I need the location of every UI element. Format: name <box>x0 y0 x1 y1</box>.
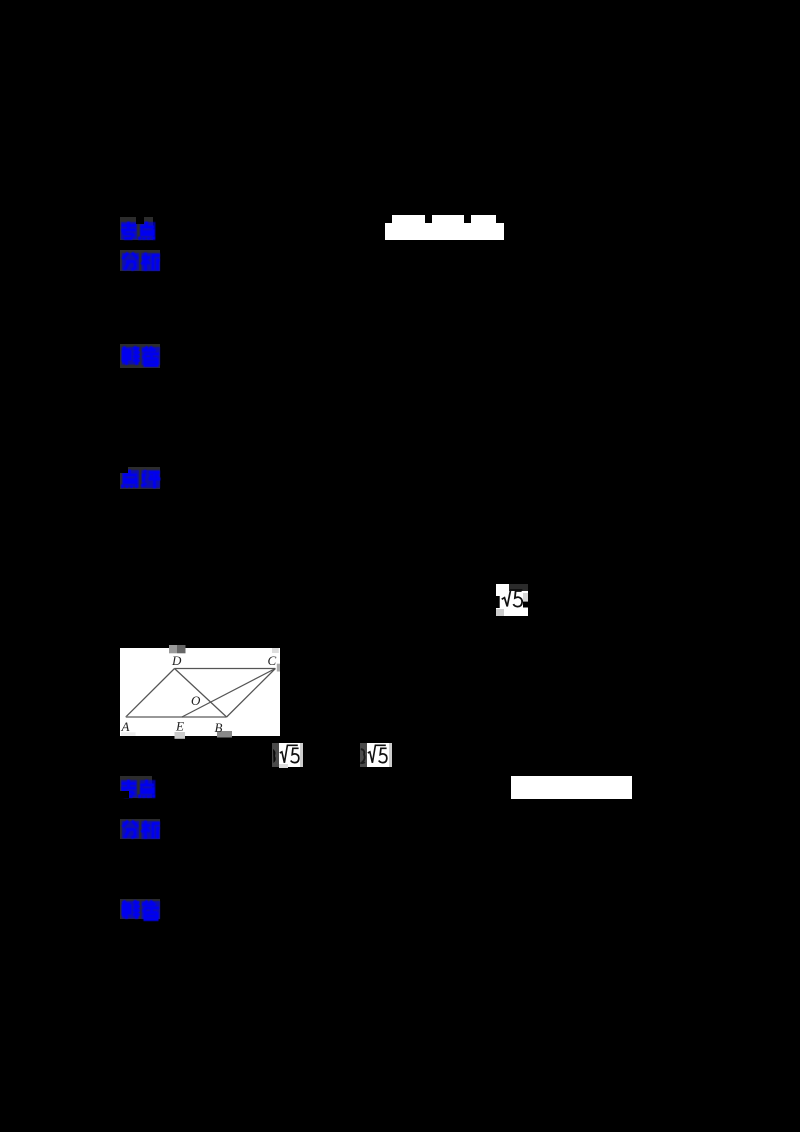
vertex labels <box>121 653 277 735</box>
equation image sqrt5 inline (answer line) <box>496 584 528 616</box>
label 解答 #1 <box>120 344 160 368</box>
parallelogram sides <box>126 669 276 718</box>
geometry figure image: parallelogram ABCD <box>120 648 280 736</box>
equation image sqrt5 #2 <box>272 743 279 766</box>
svg-text:C: C <box>268 653 277 668</box>
label 点评 #1 <box>120 467 160 489</box>
svg-text:E: E <box>175 719 184 734</box>
svg-text:O: O <box>191 693 201 708</box>
scan smudges <box>169 645 177 653</box>
label 分析 #1 <box>120 250 160 271</box>
label 考点 #2 <box>120 776 152 798</box>
title highlight: three bumps <box>392 215 425 223</box>
label 考点 #1 <box>120 217 153 240</box>
svg-text:B: B <box>215 720 223 735</box>
label 解答 #2 <box>120 899 160 919</box>
cevian EC <box>182 669 276 718</box>
label 分析 #2 <box>120 819 160 839</box>
svg-text:A: A <box>121 719 130 734</box>
title highlight: base bar <box>385 223 504 240</box>
svg-text:D: D <box>171 653 182 668</box>
answer highlight rectangle <box>511 776 631 799</box>
equation image sqrt5 #3 <box>360 743 367 766</box>
diagonal DB <box>175 669 227 718</box>
